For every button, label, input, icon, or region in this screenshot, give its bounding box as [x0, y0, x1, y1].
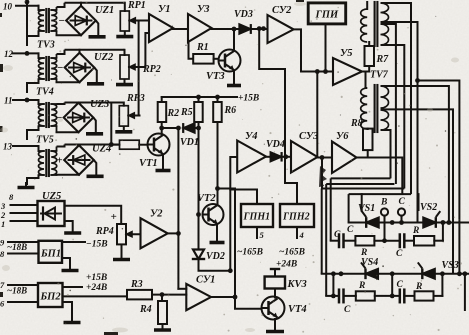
middle riser from VS4 row [391, 274, 393, 296]
svg-text:БП1: БП1 [40, 249, 61, 260]
R5 bottom wire [198, 122, 200, 128]
rectifier UZ5 [38, 201, 65, 226]
VT1 emitter ground [162, 154, 164, 171]
amplifier U6 [332, 142, 357, 174]
wire primary bottom to bus [27, 175, 39, 185]
capacitor C (VS3 snubber) [399, 290, 402, 303]
capacitor C (VS2 snubber) [399, 235, 402, 248]
UZ3 top bus [65, 102, 124, 104]
svg-text:~165В: ~165В [279, 248, 305, 258]
RP2 wiper arrow [129, 66, 145, 68]
power supply BP1 [39, 241, 63, 263]
transformer T2 primary winding [38, 53, 40, 58]
wire primary bottom to bus [27, 79, 39, 93]
wire terminal 11 [13, 99, 39, 101]
R6 wire down [217, 122, 219, 189]
transistor VT2 [203, 204, 224, 225]
transistor VT4 [262, 297, 285, 320]
transformer T3 core [45, 103, 47, 127]
resistor R (VS4 snubber) [344, 295, 356, 297]
thyristor VS2 [423, 217, 436, 227]
junction bus/11 [25, 98, 30, 103]
BP1 ground [62, 258, 70, 266]
U5 output to R7 and TV7 [362, 66, 369, 72]
svg-text:С: С [397, 280, 404, 290]
svg-text:С: С [347, 225, 354, 235]
BP2 output wire to R3 [63, 295, 128, 297]
terminal C stem [401, 216, 403, 223]
UZ1 inner diode [71, 20, 92, 22]
svg-text:KV3: KV3 [287, 279, 307, 290]
capacitor C (VS1 snubber) [338, 235, 341, 248]
U2 output wire [168, 232, 179, 234]
svg-text:RP1: RP1 [127, 0, 146, 11]
amplifier U3 [188, 14, 212, 42]
vertical RP1-node to RP3 wiper [138, 21, 140, 116]
resistor R2 [158, 102, 167, 122]
left common bus wire [26, 2, 28, 36]
UZ5 inner diode [45, 208, 56, 220]
svg-text:4: 4 [299, 230, 304, 240]
KV3 supply stub [274, 269, 276, 277]
svg-text:−: − [57, 62, 64, 74]
bridge rectifier UZ3 [64, 103, 94, 133]
snubber wire row1 [331, 240, 339, 242]
svg-text:UZ1: UZ1 [95, 5, 114, 16]
ground left bus [25, 182, 27, 188]
svg-text:R3: R3 [130, 279, 143, 290]
VT4 emitter ground [274, 318, 276, 332]
upper transformer secondary 1 [381, 3, 389, 22]
power supply BP2 [38, 283, 63, 307]
svg-text:У6: У6 [336, 131, 349, 142]
transistor VT1 [148, 134, 170, 156]
svg-text:~18В: ~18В [7, 242, 27, 252]
TV7 secondary 2 [381, 110, 389, 130]
transformer T4 primary winding [38, 146, 40, 151]
terminal B [381, 208, 388, 215]
VS1 gate riser [361, 194, 363, 211]
svg-text:R5: R5 [180, 107, 193, 118]
RP1 ground [124, 31, 126, 37]
UZ2 inner diode [69, 67, 90, 69]
svg-text:R4: R4 [139, 304, 152, 315]
wire secondary bottom to UZ3 bottom vertex [57, 131, 79, 133]
VS4 gate riser [360, 263, 362, 274]
BP2 ground [63, 302, 73, 318]
amplifier U5 [333, 58, 362, 85]
VS3 resistor riser [441, 274, 443, 296]
upper transformer core [374, 2, 376, 46]
far right column drop [464, 274, 466, 310]
tap wire y80 [418, 81, 460, 274]
svg-text:VT2: VT2 [197, 193, 216, 204]
thyristor VS3 [422, 269, 435, 279]
R4 ground [162, 324, 164, 330]
dark specks (decorative) [62, 6, 446, 324]
secondary leads [51, 103, 56, 105]
svg-text:+: + [56, 155, 62, 167]
svg-text:С: С [396, 249, 403, 259]
svg-text:С: С [399, 197, 406, 207]
SU1 output wire [211, 296, 235, 298]
comparator SU1 [186, 284, 211, 310]
resistor R8 [363, 129, 373, 151]
UZ5 output wire to RP4 [65, 206, 122, 224]
vertical RP2 wiper to U1 lower input [145, 33, 149, 67]
potentiometer RP3 [119, 106, 128, 126]
svg-text:+: + [111, 211, 117, 223]
wire terminal 13 [13, 145, 39, 147]
U3 lower corner to R1 [189, 40, 194, 59]
svg-text:R7: R7 [376, 54, 390, 65]
svg-text:13: 13 [3, 142, 13, 152]
secondary leads [51, 57, 56, 59]
upper output transformer primary [361, 9, 367, 42]
wire primary bottom to bus [27, 126, 39, 140]
svg-text:R6: R6 [224, 105, 237, 116]
RP1 wiper arrow [129, 20, 140, 22]
wire terminal 10 to TV primary [16, 5, 39, 7]
VS4 row drop [332, 274, 334, 296]
VT2 emitter ground [216, 224, 218, 243]
TV7 primary [361, 88, 368, 129]
left drop from y178 to snubber row1 [330, 178, 332, 240]
UZ2 ground [94, 68, 97, 84]
svg-text:1: 1 [1, 219, 5, 229]
svg-text:RP4: RP4 [95, 226, 114, 237]
RP2 ground [124, 79, 126, 85]
svg-text:ГПН1: ГПН1 [243, 212, 271, 223]
svg-text:VD4: VD4 [266, 139, 285, 150]
svg-text:VS3: VS3 [442, 260, 459, 271]
svg-text:TV7: TV7 [370, 70, 389, 81]
UZ3 inner diode [68, 117, 89, 119]
wire VD2 to SU1 output node [199, 259, 231, 271]
comparator SU3 [291, 141, 318, 173]
RP4 ground [121, 244, 123, 259]
GPI output wire [325, 24, 327, 72]
svg-text:R: R [358, 281, 365, 291]
U6 output rail right [368, 158, 403, 195]
transistor VT3 [219, 50, 241, 72]
generator GPN2 [280, 204, 314, 227]
+15V bus [162, 96, 237, 98]
TV7 core [374, 85, 376, 132]
wire VD3 node down to SU3 input [259, 29, 285, 157]
svg-text:R1: R1 [196, 42, 209, 53]
amplifier U1 [149, 14, 173, 42]
GPN1 pin 5 [256, 227, 258, 238]
UZ5 bottom stub ground [65, 221, 73, 228]
resistor R7 [365, 46, 375, 66]
resistor R1 [193, 54, 213, 64]
svg-text:VT4: VT4 [288, 304, 307, 315]
anode row wire [349, 222, 469, 224]
UZ2 top bus [65, 49, 125, 51]
transformer T1 primary winding [38, 6, 40, 10]
riser UZ3 bus to UZ4 bus [110, 103, 112, 145]
svg-text:UZ5: UZ5 [42, 191, 61, 202]
svg-text:VD2: VD2 [206, 251, 225, 262]
wire R to B stem [374, 240, 399, 242]
svg-text:R: R [415, 282, 422, 292]
resistor R5 [194, 102, 203, 122]
svg-text:БП2: БП2 [40, 292, 62, 303]
transformer T3 primary winding [38, 100, 40, 104]
UZ4 top bus [65, 144, 120, 146]
svg-text:−15В: −15В [86, 240, 108, 250]
VT3 emitter ground [233, 70, 235, 86]
svg-text:R8: R8 [350, 118, 363, 129]
svg-text:+15В: +15В [86, 273, 107, 283]
wire R1 to VT3 base [214, 58, 219, 60]
wire U1 upper input [140, 20, 149, 22]
wire secondary top to UZ4 [57, 145, 65, 147]
wire secondary bottom to UZ2 bottom vertex [57, 81, 80, 83]
transformer T4 secondary winding [51, 151, 57, 175]
long vertical R5 node down [198, 128, 200, 249]
svg-text:−: − [58, 15, 65, 27]
svg-text:ГПИ: ГПИ [315, 10, 340, 21]
junction bus/12 [25, 51, 30, 56]
potentiometer RP4 [117, 224, 126, 244]
snubber wire row2 [326, 295, 339, 297]
comparator SU2 [268, 15, 294, 43]
wire SU3 to U6 [318, 157, 333, 159]
wire row y184 [326, 183, 394, 185]
VT3 collector wire [233, 29, 235, 51]
svg-text:В: В [380, 198, 387, 208]
junction bus/13 [25, 0, 30, 4]
svg-text:UZ3: UZ3 [90, 99, 109, 110]
BP2 output +15V stub [63, 286, 83, 288]
edge marks (decorative) [0, 0, 304, 335]
terminal C [398, 208, 405, 215]
base resistor to VT1 [120, 140, 140, 149]
wire row y194 [349, 193, 411, 195]
transformer T1 secondary winding [51, 10, 57, 31]
VT4 collector wire [274, 289, 276, 298]
svg-text:ГПН2: ГПН2 [282, 212, 310, 223]
feedback wire U5 input to SU3 output node [316, 72, 318, 158]
svg-text:11: 11 [4, 96, 13, 106]
drop from SU3 node through y188 to VS4 row [321, 158, 323, 189]
transformer T2 secondary winding [51, 58, 57, 79]
svg-text:R: R [412, 226, 419, 236]
svg-text:VS4: VS4 [361, 257, 378, 268]
svg-text:VD3: VD3 [234, 9, 253, 20]
svg-text:СУ2: СУ2 [272, 5, 292, 16]
potentiometer RP2 [120, 55, 129, 79]
svg-text:~18В: ~18В [7, 286, 27, 296]
wire U3 output [212, 28, 233, 30]
wire collector node to VT4 base [218, 189, 262, 309]
svg-text:VT3: VT3 [206, 71, 225, 82]
GPN2 input riser [285, 157, 297, 204]
amplifier U2 [141, 218, 168, 248]
transformer T4 core [45, 150, 47, 176]
diode VD2 [193, 250, 204, 260]
wire R3 to SU1 [152, 294, 186, 296]
secondary leads [51, 150, 56, 152]
svg-text:UZ2: UZ2 [94, 52, 114, 63]
svg-text:У5: У5 [340, 48, 353, 59]
UZ4 ground [94, 160, 97, 176]
svg-text:R2: R2 [167, 108, 180, 119]
resistor R4 [158, 301, 167, 324]
thyristor VS1 [366, 217, 379, 227]
transformer T3 secondary winding [51, 104, 57, 126]
secondary leads [51, 9, 56, 11]
resistor R (VS1 snubber) [344, 240, 356, 242]
svg-text:У1: У1 [158, 4, 171, 15]
wire VD3 to SU2 [251, 28, 268, 30]
drop to VS1 anode row [348, 194, 350, 222]
wire primary bottom to bus [27, 31, 39, 46]
generator GPN1 [241, 204, 273, 227]
VS2 gate riser [418, 194, 420, 210]
resistor R (VS2 snubber) [404, 240, 414, 242]
thyristor VS4 [366, 269, 379, 279]
RP3 wiper arrow [128, 115, 139, 117]
svg-text:СУ3: СУ3 [299, 131, 318, 142]
VT2 collector wire [217, 189, 219, 206]
TV7 secondary taps [381, 86, 449, 223]
relay KV3 [265, 277, 285, 289]
svg-text:VD1: VD1 [180, 137, 199, 148]
wire row y188 [322, 188, 405, 190]
svg-text:С: С [344, 305, 351, 315]
potentiometer RP1 [120, 11, 129, 31]
transformer T2 core [45, 57, 47, 80]
resistor R6 [213, 102, 222, 122]
capacitor C (VS4 snubber) [338, 290, 341, 303]
svg-text:+24В: +24В [86, 283, 107, 293]
svg-text:10: 10 [3, 2, 13, 12]
RP4 wiper arrow [126, 233, 141, 235]
GPN2 pin 4 [296, 227, 298, 238]
resistor R (VS3 snubber) [404, 295, 414, 297]
left drop from y184 to snubber row2 [325, 184, 327, 296]
U6 output to R8 [357, 150, 368, 157]
TV7 secondary 1 [381, 86, 389, 108]
wire secondary top to UZ2 [57, 50, 65, 54]
diode VD1 [161, 122, 163, 128]
wire secondary bottom to UZ4 bottom vertex [57, 174, 80, 176]
svg-text:~165В: ~165В [237, 248, 263, 258]
UZ3 ground [93, 118, 96, 134]
svg-text:RP3: RP3 [126, 93, 145, 104]
U4 input riser from GPN1 [230, 157, 257, 204]
diode VD4 [266, 156, 270, 158]
terminal B stem down to snubber row [384, 216, 386, 241]
wire terminal 12 [13, 52, 39, 54]
SU2 output wire to U5 [294, 29, 333, 71]
bridge rectifier UZ1 [66, 6, 96, 36]
wire row y178 [331, 177, 391, 179]
UZ1 top bus [65, 2, 125, 4]
pulse generator GPI [308, 3, 346, 24]
svg-text:−: − [56, 112, 63, 124]
wire U1 to U3 [173, 28, 188, 30]
UZ1 ground [96, 21, 99, 37]
bridge rectifier UZ2 [65, 53, 95, 83]
svg-text:TV3: TV3 [37, 40, 55, 51]
svg-text:VS2: VS2 [420, 202, 437, 213]
wire secondary top to UZ1 [57, 3, 65, 7]
svg-text:У2: У2 [150, 209, 163, 220]
BP1 output wire [62, 241, 85, 243]
svg-text:У4: У4 [245, 131, 258, 142]
UZ4 inner diode [69, 159, 90, 161]
wire resistor to VT1 base [139, 144, 147, 146]
wire secondary top to UZ3 [57, 103, 65, 105]
secondary taps [381, 3, 412, 194]
VT1 collector wire [161, 128, 163, 135]
svg-text:VT1: VT1 [139, 158, 158, 169]
svg-text:У3: У3 [197, 4, 210, 15]
bridge rectifier UZ4 [64, 145, 94, 175]
svg-text:+15В: +15В [238, 94, 259, 104]
resistor R3 [127, 290, 152, 300]
RP3 ground [123, 126, 125, 132]
diode VD3 [232, 28, 245, 30]
transformer T1 core [45, 9, 47, 32]
upper transformer secondary 2 [381, 24, 389, 45]
svg-text:TV5: TV5 [36, 135, 54, 146]
amplifier U4 [237, 141, 266, 173]
ink smudge artifact [319, 166, 327, 187]
svg-text:VS1: VS1 [358, 203, 375, 214]
gate row wire [322, 273, 469, 275]
wire secondary bottom to UZ1 bottom vertex [57, 34, 82, 36]
riser to VS2 cathode node [434, 240, 443, 242]
svg-text:TV4: TV4 [36, 87, 54, 98]
vertical feedback wire from VD1 down to SU1 [177, 128, 179, 289]
